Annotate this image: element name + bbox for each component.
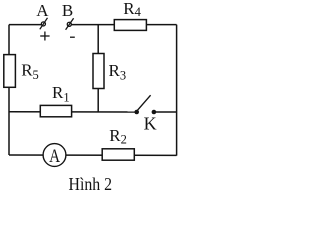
wire: bottom horizontal branch <box>9 154 177 156</box>
switch K left contact dot <box>134 110 139 115</box>
svg-text:K: K <box>144 113 157 133</box>
terminal B slash <box>66 18 74 30</box>
switch K blade <box>137 95 150 110</box>
wire: top horizontal from left corner to terminal A <box>9 24 41 26</box>
resistor R4 box <box>114 20 146 31</box>
terminal A slash <box>40 18 48 30</box>
svg-text:A: A <box>36 1 49 20</box>
resistor R2 box <box>102 149 134 160</box>
switch K right contact dot <box>152 110 157 115</box>
terminal A circle <box>41 22 45 26</box>
wire: R3 vertical branch <box>97 25 99 112</box>
plus sign under terminal A <box>40 32 49 41</box>
wire: switch right dot to right branch <box>154 111 177 113</box>
terminal B circle <box>67 22 71 26</box>
ammeter A circle <box>43 144 66 167</box>
resistor R5 box <box>4 55 16 88</box>
wire: left vertical branch <box>8 25 10 155</box>
svg-text:Hình 2: Hình 2 <box>69 174 113 194</box>
svg-text:A: A <box>49 145 60 166</box>
minus sign under terminal B <box>70 36 75 38</box>
resistor R3 box <box>93 54 104 89</box>
svg-text:B: B <box>62 1 73 20</box>
wire: right vertical branch <box>176 25 178 156</box>
wire: top horizontal from terminal B to right corner <box>71 24 176 26</box>
resistor R1 box <box>40 105 71 116</box>
wire: middle horizontal branch with R1 to switch <box>9 111 137 113</box>
